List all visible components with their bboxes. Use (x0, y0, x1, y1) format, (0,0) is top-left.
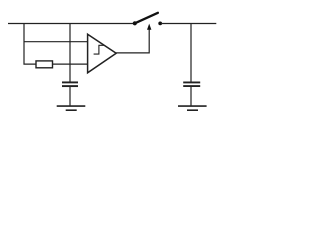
ground left (57, 106, 86, 110)
wire middle vertical (69, 24, 71, 83)
wire C2 to ground (190, 87, 192, 106)
wire top rail left (8, 23, 134, 25)
wire C1 to ground (69, 87, 71, 106)
capacitor C1 (62, 82, 78, 86)
wire R1 to U1 minus input (53, 63, 89, 65)
wire node to U1 plus input (24, 41, 88, 43)
switch S1 lever (135, 13, 158, 23)
ground right (178, 106, 207, 110)
wire top rail right (161, 23, 216, 25)
resistor R1 (36, 61, 53, 68)
wire U1 output to switch control (116, 30, 149, 53)
wire right vertical (190, 24, 192, 83)
switch S1 (133, 21, 162, 25)
capacitor C2 (183, 82, 200, 86)
wire left vertical to R1 (24, 24, 36, 65)
switch S1 control arrow (147, 24, 151, 30)
op-amp U1 (88, 34, 117, 73)
